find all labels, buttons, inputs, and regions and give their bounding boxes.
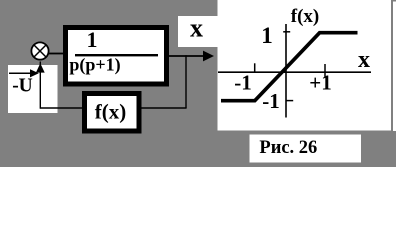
svg-text:+1: +1 [309,71,331,95]
saturation curve f(x) [221,33,358,101]
graph y-axis [285,24,287,118]
wire: input -U arrow line [9,72,31,74]
svg-text:f(x): f(x) [95,100,126,124]
label box for input -U [8,65,58,113]
summing junction X diagonal 2 [34,45,46,57]
label box for node x [178,16,219,47]
summing junction circle [31,42,48,59]
summing junction X diagonal 1 [34,45,46,57]
graph x-axis [218,71,371,73]
svg-text:x: x [358,47,370,73]
tick y=+1 [283,31,290,33]
svg-text:-U: -U [12,76,33,97]
wire: summing junction to block W(p) [49,53,65,55]
tick x=+1 [324,64,326,78]
tick x=-1 [254,63,256,72]
block U1: transfer function 1/(p(p+1)) [66,28,167,85]
svg-text:1: 1 [87,27,98,52]
svg-text:Рис. 26: Рис. 26 [259,138,317,158]
page margin sliver right [393,2,396,132]
wire: feedback branch vertical drop at node x [185,55,187,108]
caption box [250,135,362,163]
arrowhead into summing junction [36,63,45,72]
arrowhead of -U input [30,69,39,77]
tick y=-1 [286,100,293,102]
svg-text:1: 1 [261,23,273,48]
wire: vertical feedback rise into summing junction [39,62,41,109]
arrowhead on output wire [203,51,214,62]
svg-text:f(x): f(x) [291,6,319,27]
graph panel background [218,0,392,131]
fraction bar [75,54,158,56]
svg-text:-1: -1 [262,89,280,113]
wire: feedback horizontal to f(x) input (right side) [142,107,187,109]
block U2: nonlinearity f(x) [85,94,140,132]
svg-text:p(p+1): p(p+1) [69,55,120,76]
svg-text:-1: -1 [234,71,252,95]
svg-text:x: x [190,14,203,43]
wire: block W(p) output [169,55,204,57]
wire: f(x) output to summing junction path [40,107,82,109]
